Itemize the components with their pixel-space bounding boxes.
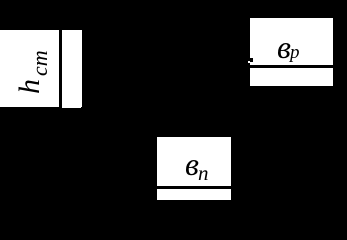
label в_п : base glyph <box>185 148 199 180</box>
top-right label box (rib width в_р) <box>250 18 334 86</box>
label h_ст (rotated 90° CCW) <box>15 50 45 94</box>
label в_п : subscript п <box>198 163 209 184</box>
horizontal dimension line in bottom box <box>157 186 231 189</box>
oblique tick white part outside box <box>248 61 250 63</box>
label в_р : base glyph <box>277 31 291 63</box>
horizontal dimension line in top-right box <box>250 65 334 68</box>
extension strip right of vertical line <box>62 30 81 108</box>
label в_р : subscript р <box>290 43 300 62</box>
bottom label box (flange width в_п) <box>157 137 231 200</box>
vertical dimension line in left box <box>59 30 62 108</box>
left label box (web height h_ст) <box>0 30 82 107</box>
oblique tick at left end of в_р dimension line (black part inside box) <box>249 58 253 62</box>
